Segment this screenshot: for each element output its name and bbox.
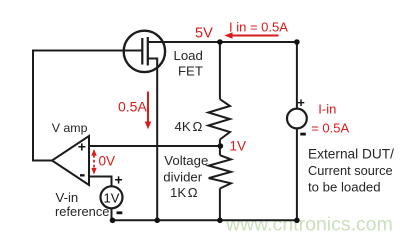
svg-text:+: + <box>78 138 86 154</box>
svg-text:V-in: V-in <box>56 190 79 205</box>
svg-text:divider: divider <box>163 170 202 185</box>
svg-text:= 0.5A: = 0.5A <box>311 121 349 136</box>
svg-text:0V: 0V <box>99 153 116 168</box>
svg-text:to be loaded: to be loaded <box>308 180 381 195</box>
svg-text:Load: Load <box>174 48 203 63</box>
svg-text:1V: 1V <box>230 139 247 154</box>
svg-text:V amp: V amp <box>52 121 88 135</box>
svg-text:Current source: Current source <box>308 163 393 178</box>
svg-text:External DUT/: External DUT/ <box>308 147 394 162</box>
svg-text:Ω: Ω <box>188 185 198 200</box>
svg-text:I-in: I-in <box>318 101 336 116</box>
svg-text:Voltage: Voltage <box>164 153 208 168</box>
svg-text:reference: reference <box>55 204 109 219</box>
svg-text:5V: 5V <box>195 26 213 42</box>
svg-text:1K: 1K <box>170 185 186 200</box>
svg-text:0.5A: 0.5A <box>118 99 147 115</box>
svg-text:+: + <box>297 95 305 110</box>
svg-text:4K: 4K <box>175 119 191 134</box>
svg-text:FET: FET <box>178 64 203 79</box>
svg-text:I in = 0.5A: I in = 0.5A <box>229 20 288 35</box>
svg-text:+: + <box>115 172 123 188</box>
svg-text:Ω: Ω <box>193 119 203 134</box>
svg-text:www.cntronics.com: www.cntronics.com <box>225 213 393 235</box>
